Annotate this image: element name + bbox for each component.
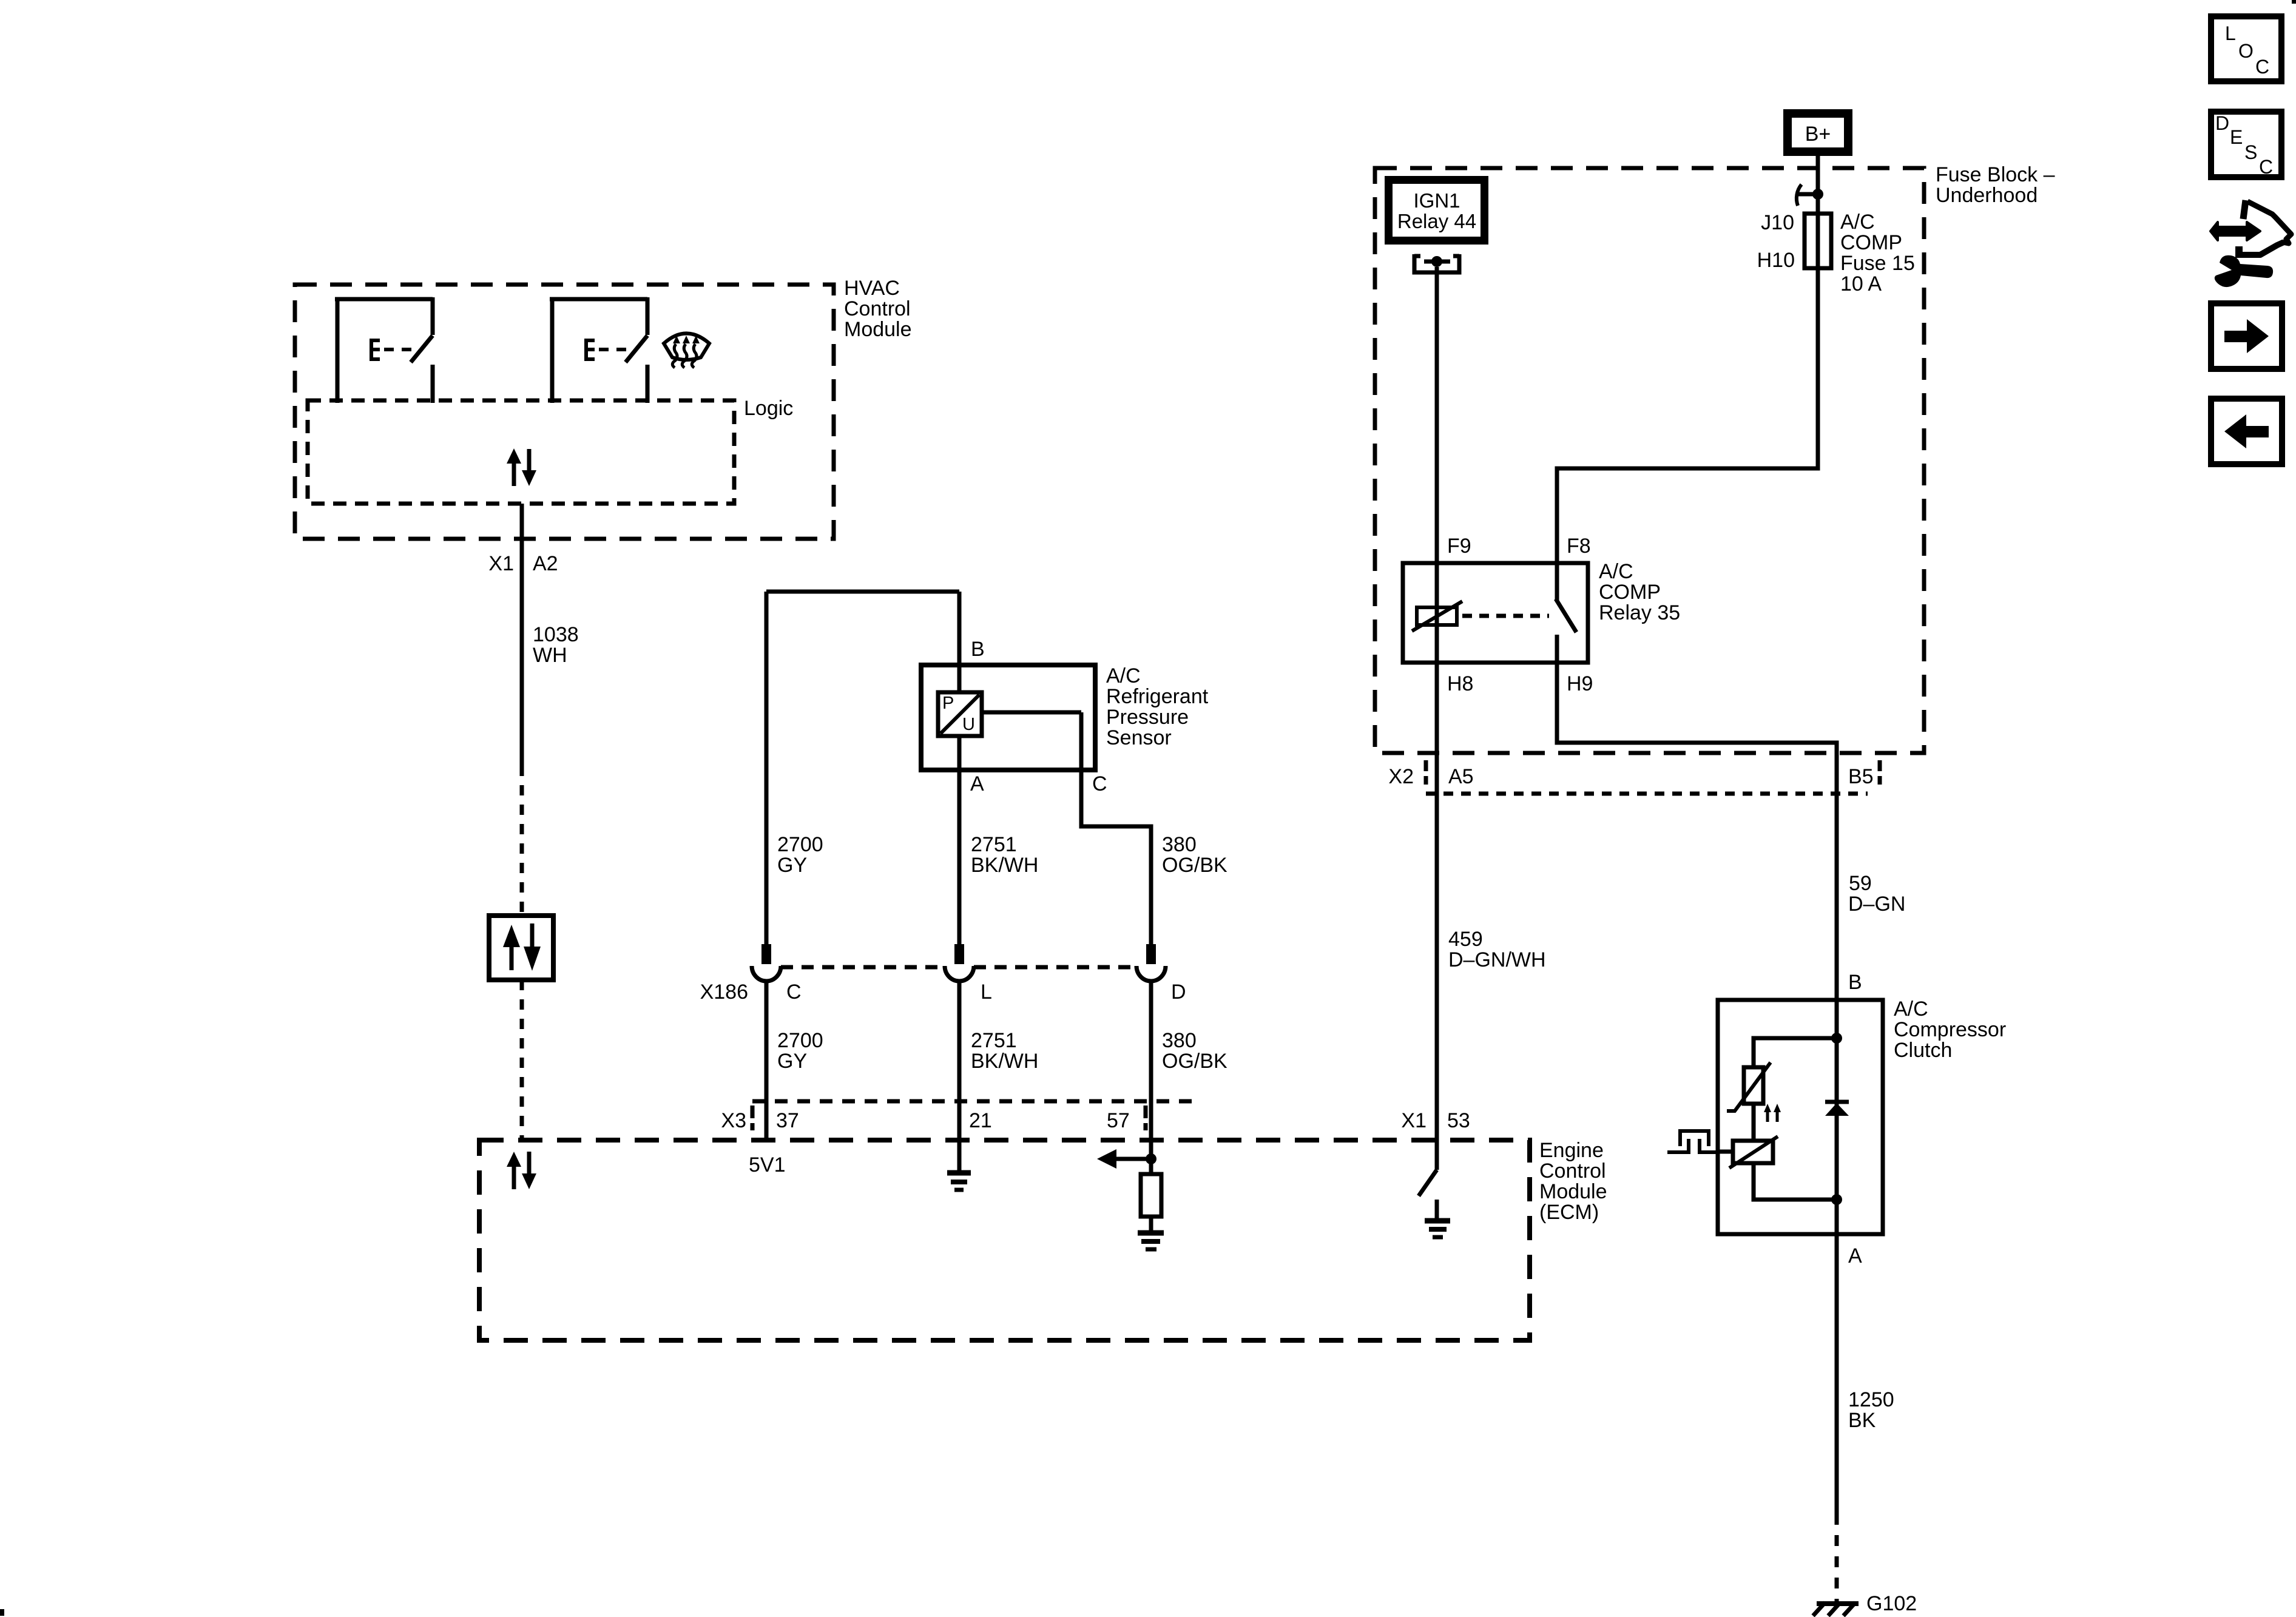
- HVAC Control Module box: [295, 277, 912, 539]
- ground under resistor: [1138, 1233, 1164, 1249]
- svg-text:1250: 1250: [1848, 1388, 1894, 1411]
- svg-text:F9: F9: [1447, 535, 1471, 558]
- relay coil: [1412, 563, 1462, 663]
- dashed wire to ECM: [520, 980, 524, 1140]
- clutch main wire B to A: [1835, 1000, 1839, 1234]
- svg-text:G102: G102: [1866, 1592, 1917, 1615]
- svg-text:53: 53: [1447, 1109, 1470, 1132]
- svg-text:Fuse 15: Fuse 15: [1840, 252, 1915, 275]
- switch S2 (defrost switch): [550, 297, 647, 403]
- svg-text:A5: A5: [1448, 765, 1474, 788]
- A/C Compressor Clutch box: [1718, 998, 2006, 1234]
- svg-text:IGN1: IGN1: [1413, 189, 1460, 212]
- relay switch: [1556, 563, 1576, 663]
- svg-text:Relay 44: Relay 44: [1397, 210, 1476, 232]
- thermal fuse (thermistor): [1727, 1062, 1771, 1111]
- terminal clip at fuse J10: [1797, 184, 1823, 206]
- svg-text:OG/BK: OG/BK: [1162, 854, 1227, 877]
- node 57 junction and signal arrow: [1097, 1149, 1156, 1169]
- fuse A/C COMP Fuse 15 10A: [1757, 211, 1915, 295]
- svg-text:(ECM): (ECM): [1539, 1201, 1599, 1224]
- temperature arrows: [1764, 1104, 1781, 1122]
- svg-text:BK: BK: [1848, 1409, 1876, 1432]
- svg-text:10 A: 10 A: [1840, 272, 1882, 295]
- svg-text:Control: Control: [1539, 1160, 1606, 1183]
- wire fuse to relay F8: [1557, 268, 1818, 563]
- wire 2700 GY lower (5V1): [749, 981, 823, 1176]
- svg-text:C: C: [2255, 56, 2269, 78]
- wire B top horizontal (2700 GY to sensor): [766, 590, 959, 594]
- svg-text:U: U: [962, 715, 975, 734]
- svg-text:C: C: [2259, 156, 2273, 178]
- svg-text:59: 59: [1849, 872, 1872, 895]
- svg-text:Clutch: Clutch: [1894, 1039, 1952, 1062]
- X186 pin D: [1136, 944, 1166, 981]
- svg-text:D: D: [1171, 981, 1186, 1004]
- wire IGN1 to relay F9: [1435, 267, 1439, 563]
- wire 2751 BK/WH lower (pin 21): [959, 981, 1038, 1170]
- P/U transducer symbol: [938, 692, 1081, 736]
- svg-text:2751: 2751: [971, 1029, 1017, 1052]
- svg-text:E: E: [2230, 126, 2243, 148]
- mechanical linkage wire: [1717, 1150, 1733, 1154]
- svg-text:H9: H9: [1567, 672, 1593, 695]
- svg-text:1038: 1038: [533, 623, 579, 646]
- svg-text:X186: X186: [700, 981, 748, 1004]
- wire B+ to fuse: [1816, 156, 1820, 214]
- svg-text:D–GN/WH: D–GN/WH: [1448, 948, 1546, 971]
- svg-text:L: L: [2225, 22, 2236, 44]
- svg-text:37: 37: [776, 1109, 799, 1132]
- wire 1250 BK: [1837, 1234, 1894, 1514]
- svg-text:COMP: COMP: [1840, 231, 1902, 254]
- wire 1038 WH from logic to X1/A2: [488, 504, 578, 766]
- svg-text:P: P: [942, 694, 954, 713]
- serial data arrows in logic box: [507, 448, 536, 486]
- wire B into sensor: [959, 592, 985, 692]
- svg-text:GY: GY: [777, 854, 807, 877]
- dashed wire segment: [520, 766, 524, 916]
- page artifact top-right: [2292, 0, 2296, 4]
- svg-text:H10: H10: [1757, 249, 1795, 272]
- wire 380 OG/BK upper (pin C): [1081, 712, 1227, 944]
- svg-text:B+: B+: [1805, 123, 1831, 146]
- svg-text:A/C: A/C: [1840, 211, 1875, 234]
- svg-text:C: C: [786, 981, 802, 1004]
- svg-text:A/C: A/C: [1894, 998, 1928, 1021]
- switch to ground in ECM (pin 53): [1401, 1109, 1470, 1220]
- svg-text:Sensor: Sensor: [1106, 726, 1172, 749]
- svg-text:GY: GY: [777, 1050, 807, 1073]
- svg-text:380: 380: [1162, 833, 1197, 856]
- svg-text:A/C: A/C: [1599, 560, 1633, 583]
- Logic box: [308, 397, 793, 504]
- svg-text:Pressure: Pressure: [1106, 706, 1189, 729]
- svg-text:B5: B5: [1848, 765, 1874, 788]
- ground G102: [1813, 1592, 1917, 1616]
- svg-text:57: 57: [1107, 1109, 1130, 1132]
- svg-text:Engine: Engine: [1539, 1139, 1604, 1162]
- terminal clip under IGN1: [1414, 254, 1459, 272]
- svg-text:B: B: [1848, 971, 1862, 994]
- svg-text:OG/BK: OG/BK: [1162, 1050, 1227, 1073]
- wire 2751 BK/WH upper (pin A): [959, 736, 1038, 944]
- svg-text:X2: X2: [1388, 765, 1414, 788]
- node bottom junction: [1831, 1194, 1842, 1205]
- X186 pin C: [752, 944, 781, 981]
- svg-text:380: 380: [1162, 1029, 1197, 1052]
- clutch branch wires: [1754, 1038, 1837, 1067]
- svg-text:HVAC: HVAC: [844, 277, 900, 300]
- svg-text:Fuse Block –: Fuse Block –: [1936, 163, 2055, 186]
- svg-text:A2: A2: [533, 552, 558, 575]
- svg-text:5V1: 5V1: [749, 1153, 786, 1176]
- harness repair icon (arrow, connector outline, wrench): [2210, 200, 2291, 287]
- wire 59 D-GN labels: [1848, 872, 1905, 994]
- svg-text:H8: H8: [1447, 672, 1473, 695]
- clutch coil: [1729, 1136, 1778, 1168]
- svg-text:J10: J10: [1761, 211, 1794, 234]
- svg-text:D–GN: D–GN: [1848, 893, 1905, 916]
- defrost indicator icon: [664, 334, 709, 368]
- svg-text:Compressor: Compressor: [1894, 1018, 2006, 1041]
- svg-text:Control: Control: [844, 297, 911, 320]
- backward arrow icon: [2211, 399, 2282, 464]
- svg-text:S: S: [2244, 141, 2257, 163]
- X186 pin L: [945, 944, 974, 981]
- svg-text:Underhood: Underhood: [1936, 184, 2038, 207]
- svg-text:COMP: COMP: [1599, 581, 1661, 604]
- B+ terminal: [1783, 109, 1852, 156]
- wire 380 OG/BK lower (pin 57): [1151, 981, 1227, 1174]
- Engine Control Module (ECM) box: [479, 1139, 1607, 1340]
- svg-text:X1: X1: [488, 552, 514, 575]
- svg-text:Relay 35: Relay 35: [1599, 601, 1680, 624]
- svg-text:A: A: [970, 772, 984, 795]
- svg-text:B: B: [971, 638, 985, 661]
- svg-text:2751: 2751: [971, 833, 1017, 856]
- diode: [1825, 1102, 1849, 1116]
- node top junction: [1831, 1033, 1842, 1044]
- IGN1 Relay 44 feed: [1385, 176, 1488, 245]
- serial data arrows in ECM: [507, 1152, 536, 1189]
- connector X2 interface line: [1388, 760, 1880, 794]
- switch S1 (A/C request switch): [335, 297, 433, 403]
- svg-text:F8: F8: [1567, 535, 1591, 558]
- svg-text:X1: X1: [1401, 1109, 1427, 1132]
- wire 2700 GY upper: [766, 592, 823, 944]
- dashed wire to G102: [1835, 1514, 1839, 1604]
- LOC icon: [2211, 16, 2281, 81]
- page artifact bottom-left: [0, 1609, 4, 1616]
- connector X186: [700, 967, 1186, 1004]
- A/C Refrigerant Pressure Sensor box: [921, 664, 1209, 770]
- svg-text:Refrigerant: Refrigerant: [1106, 685, 1209, 708]
- forward arrow icon: [2211, 303, 2282, 369]
- svg-text:D: D: [2215, 112, 2229, 134]
- wire H8 to ECM (459 D-GN/WH): [1437, 663, 1546, 1170]
- relay link dashed: [1462, 614, 1549, 618]
- svg-text:Module: Module: [844, 318, 912, 341]
- svg-text:BK/WH: BK/WH: [971, 854, 1038, 877]
- in-line connector (serial data): [489, 916, 553, 980]
- ground in ECM under pin 53: [1425, 1221, 1450, 1237]
- svg-text:WH: WH: [533, 644, 567, 667]
- resistor in ECM: [1141, 1159, 1161, 1230]
- mechanical linkage symbol: [1667, 1131, 1718, 1152]
- svg-text:L: L: [981, 981, 992, 1004]
- svg-text:2700: 2700: [777, 1029, 823, 1052]
- svg-text:Logic: Logic: [744, 397, 793, 420]
- svg-text:BK/WH: BK/WH: [971, 1050, 1038, 1073]
- svg-text:C: C: [1092, 772, 1107, 795]
- ground at ECM pin 21: [947, 1173, 971, 1190]
- svg-text:X3: X3: [721, 1109, 746, 1132]
- wire H9 to B5: [1557, 663, 1837, 1000]
- connector X3 line: [721, 1101, 1195, 1132]
- svg-text:A/C: A/C: [1106, 664, 1141, 687]
- svg-text:2700: 2700: [777, 833, 823, 856]
- svg-text:459: 459: [1448, 928, 1483, 951]
- svg-text:21: 21: [969, 1109, 992, 1132]
- svg-text:O: O: [2238, 40, 2254, 62]
- DESC icon: [2211, 112, 2281, 178]
- svg-text:A: A: [1848, 1244, 1862, 1268]
- Fuse Block - Underhood box: [1375, 163, 2055, 753]
- A/C COMP Relay 35 box: [1403, 535, 1680, 695]
- svg-text:Module: Module: [1539, 1180, 1607, 1203]
